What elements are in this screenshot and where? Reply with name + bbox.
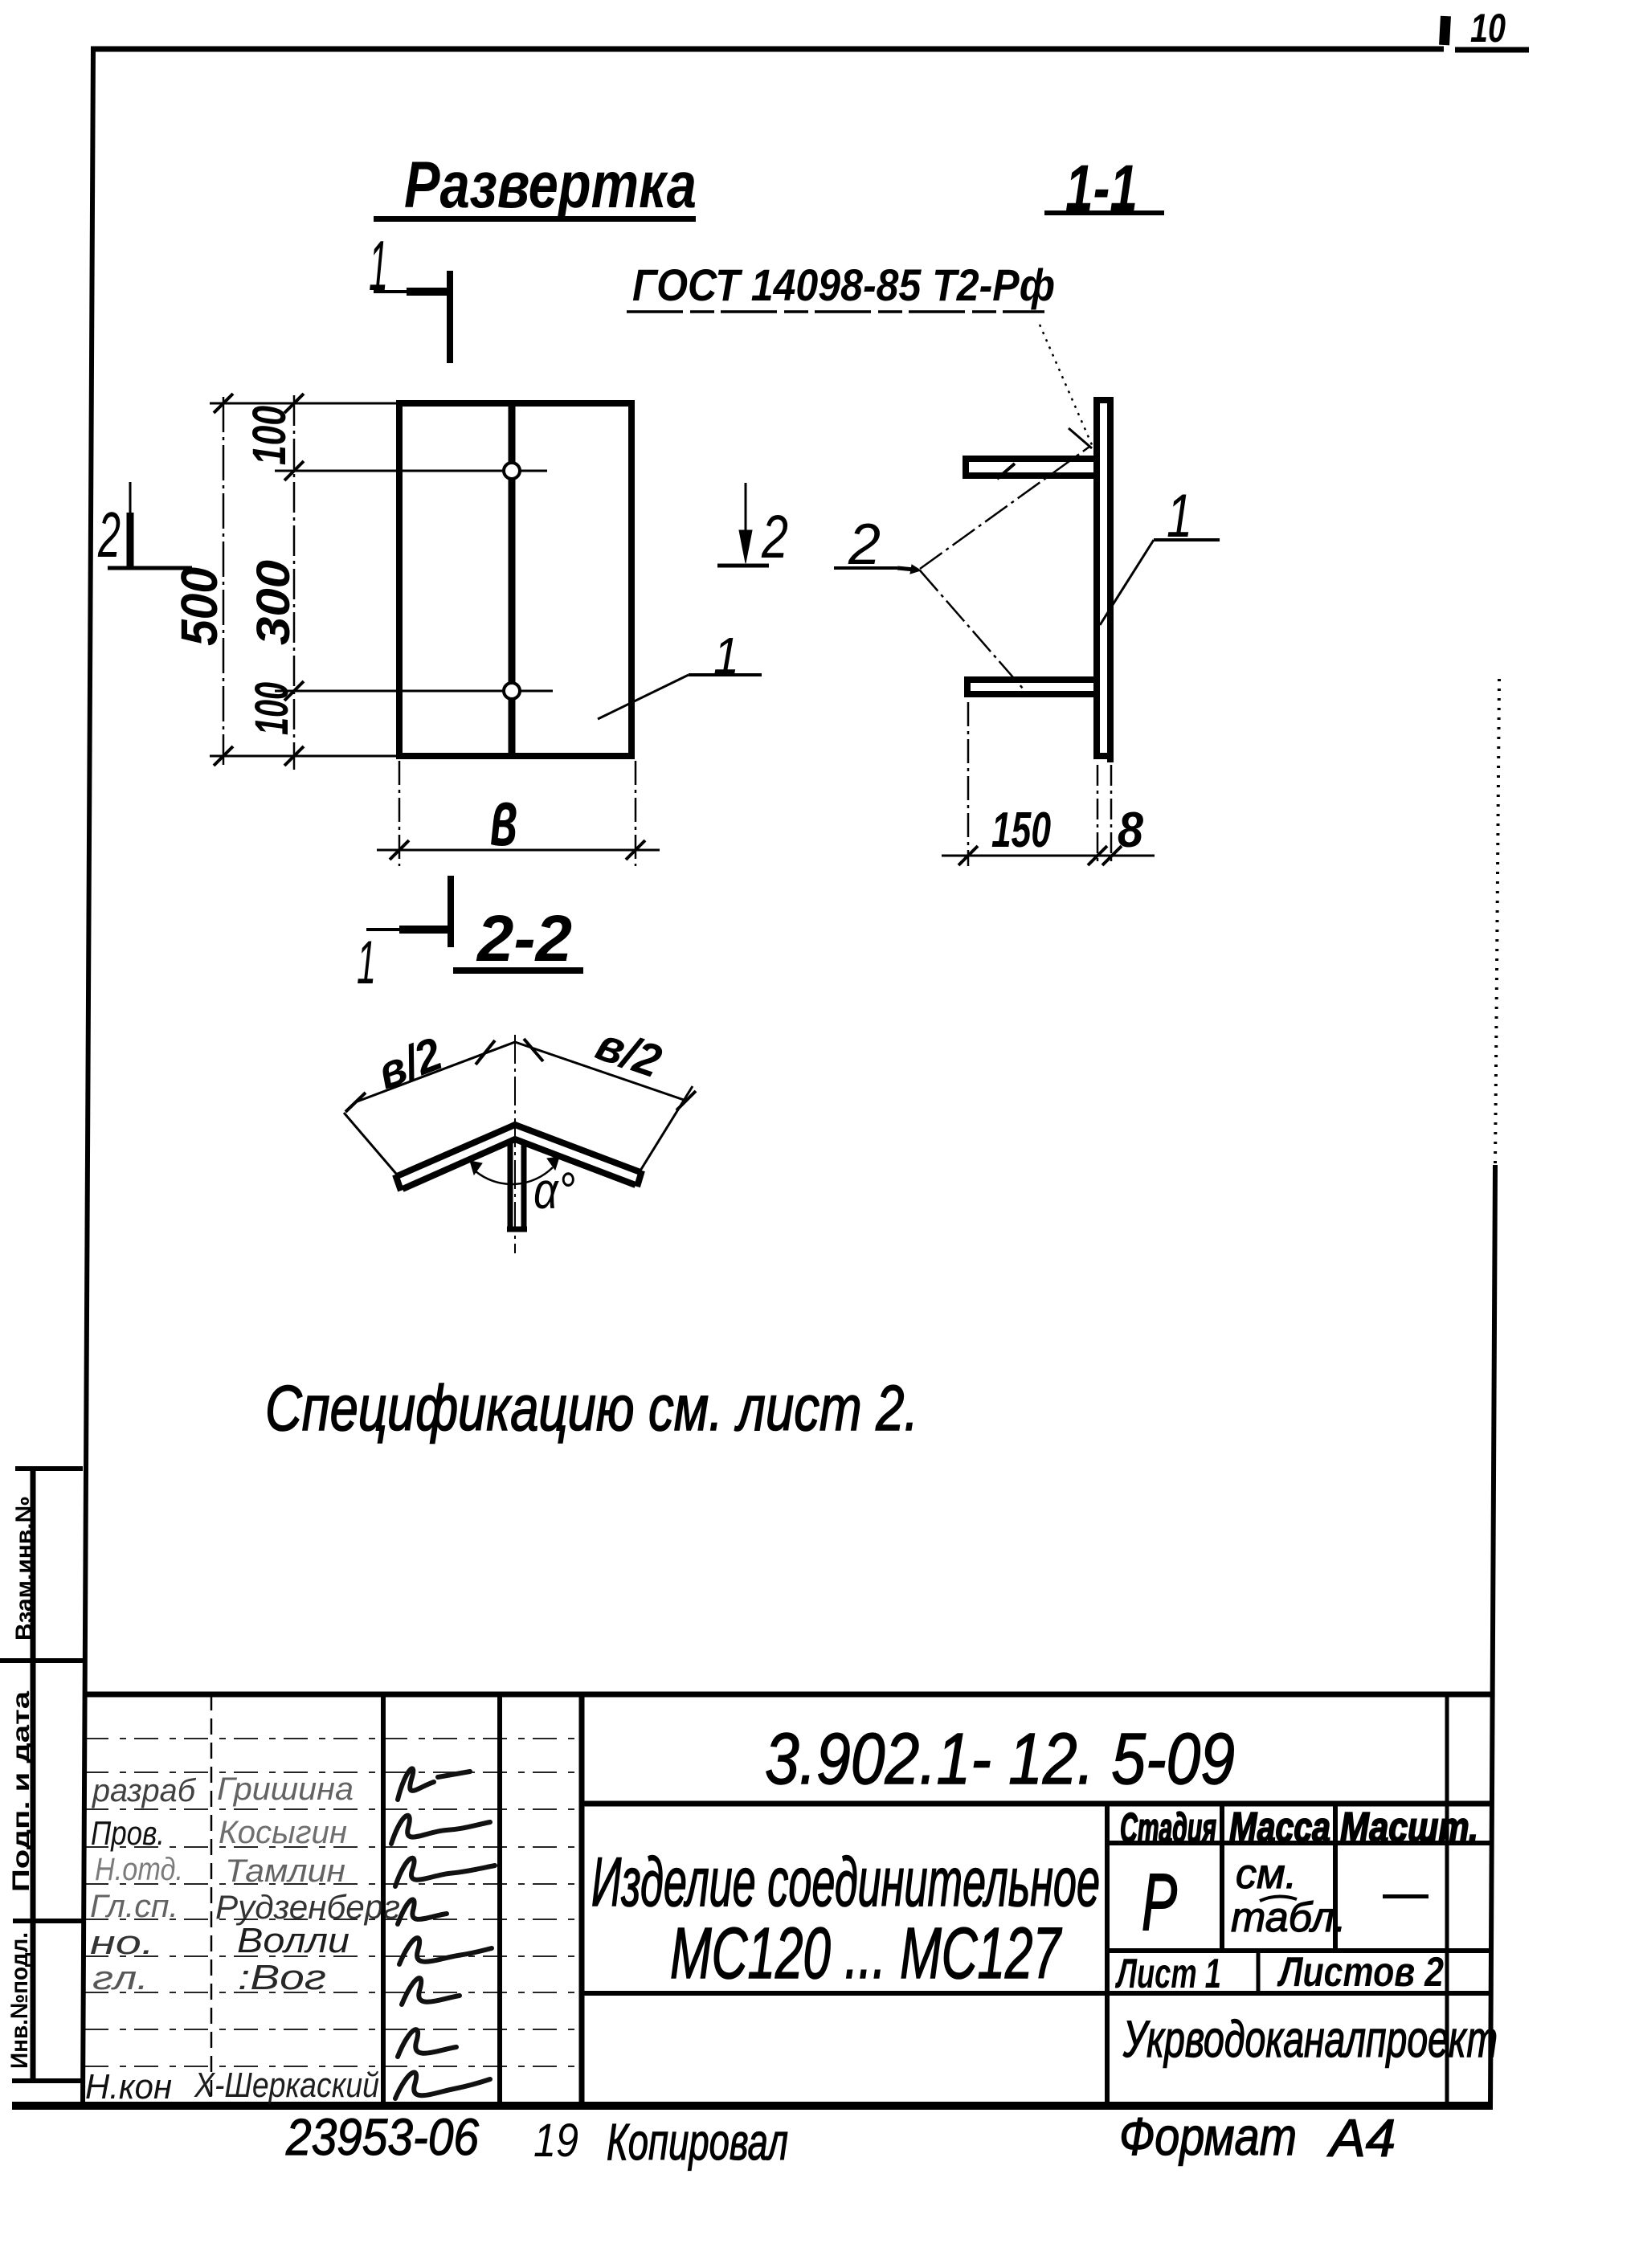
svg-text:Формат: Формат: [1119, 2107, 1297, 2166]
svg-text:2: 2: [761, 503, 788, 571]
svg-text:табл.: табл.: [1231, 1894, 1347, 1941]
svg-text:Лист 1: Лист 1: [1114, 1951, 1221, 1997]
svg-text:Рудзенберг: Рудзенберг: [215, 1888, 400, 1926]
svg-text:2: 2: [848, 513, 881, 577]
svg-text:Листов 2: Листов 2: [1277, 1949, 1444, 1996]
svg-text:гл.: гл.: [92, 1959, 149, 1996]
svg-text:Пров.: Пров.: [91, 1814, 165, 1852]
svg-text:Х-Шеркаский: Х-Шеркаский: [194, 2066, 379, 2105]
svg-text:Волли: Волли: [237, 1921, 349, 1960]
svg-text:ГОСТ 14098-85 Т2-Рф: ГОСТ 14098-85 Т2-Рф: [632, 259, 1055, 310]
svg-text:1: 1: [713, 627, 739, 684]
svg-text:Изделие соединительное: Изделие соединительное: [591, 1844, 1100, 1921]
svg-text:150: 150: [991, 803, 1051, 858]
svg-text:2: 2: [97, 499, 121, 570]
svg-text:Гришина: Гришина: [217, 1771, 354, 1807]
svg-text:Гл.сп.: Гл.сп.: [90, 1889, 178, 1924]
svg-text:Инв.№подл.: Инв.№подл.: [6, 1932, 33, 2069]
svg-text:100: 100: [246, 682, 298, 735]
svg-text:Стадия: Стадия: [1120, 1805, 1216, 1852]
svg-text:19: 19: [533, 2115, 578, 2167]
svg-text:А4: А4: [1326, 2108, 1396, 2168]
svg-text:Н.кон: Н.кон: [85, 2067, 172, 2107]
svg-text:Копировал: Копировал: [607, 2113, 788, 2171]
svg-text:100: 100: [243, 406, 296, 465]
svg-text:1: 1: [357, 929, 376, 997]
svg-text:1: 1: [369, 226, 388, 305]
svg-text:1: 1: [1167, 482, 1192, 550]
svg-text:Н.отд.: Н.отд.: [95, 1852, 183, 1887]
svg-text:Развертка: Развертка: [404, 149, 697, 222]
svg-text:23953-06: 23953-06: [285, 2108, 479, 2166]
svg-text:500: 500: [170, 567, 228, 646]
svg-text:разраб: разраб: [92, 1773, 196, 1808]
svg-text:10: 10: [1470, 6, 1506, 51]
svg-text:МС120 ... МС127: МС120 ... МС127: [670, 1914, 1062, 1994]
svg-text::Вог: :Вог: [238, 1958, 326, 1997]
svg-text:Спецификацию см. лист 2.: Спецификацию см. лист 2.: [265, 1372, 918, 1444]
svg-text:Масшт.: Масшт.: [1340, 1804, 1478, 1851]
svg-text:но.: но.: [90, 1923, 154, 1961]
svg-text:Тамлин: Тамлин: [225, 1853, 345, 1889]
svg-text:8: 8: [1118, 803, 1143, 858]
svg-text:Косыгин: Косыгин: [219, 1815, 347, 1850]
svg-text:300: 300: [247, 560, 300, 645]
svg-text:Р: Р: [1142, 1857, 1177, 1947]
svg-text:в: в: [490, 773, 517, 863]
svg-text:α°: α°: [533, 1162, 575, 1220]
svg-text:Подп. и дата: Подп. и дата: [8, 1691, 35, 1892]
svg-text:3.902.1- 12. 5-09: 3.902.1- 12. 5-09: [765, 1719, 1235, 1800]
svg-text:см.: см.: [1236, 1851, 1297, 1898]
svg-text:Масса: Масса: [1229, 1804, 1330, 1851]
svg-text:Взам.инв.№: Взам.инв.№: [11, 1496, 38, 1641]
svg-text:2-2: 2-2: [476, 902, 572, 975]
svg-text:Укрводоканалпроект: Укрводоканалпроект: [1122, 2010, 1498, 2068]
